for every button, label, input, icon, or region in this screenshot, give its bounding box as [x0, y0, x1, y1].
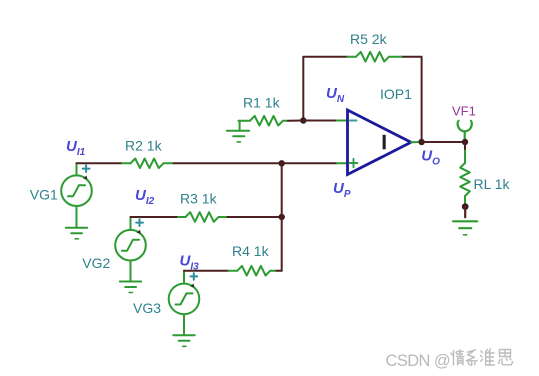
resistor R3	[178, 212, 228, 222]
svg-text:UN: UN	[326, 85, 345, 105]
node: non-inverting rail junction 2	[279, 214, 285, 220]
wire: R5 left vertical from node UN up and across to R5	[303, 57, 347, 121]
wire: VG1 to R2	[77, 162, 123, 164]
svg-text:CSDN @: CSDN @	[386, 352, 451, 370]
wire: R4 to vertical bus	[277, 270, 282, 272]
watermark glyph qing	[451, 350, 464, 365]
svg-text:VF1: VF1	[452, 104, 476, 119]
svg-text:UI3: UI3	[180, 252, 200, 272]
svg-text:UI2: UI2	[135, 187, 155, 207]
ground (R1)	[227, 121, 249, 142]
svg-text:R5 2k: R5 2k	[350, 31, 388, 47]
wire: output node short stub	[464, 142, 466, 151]
resistor R4	[228, 266, 276, 276]
wire: R2 to node P	[174, 162, 282, 164]
wire: VG3 to R4	[184, 270, 228, 272]
svg-text:VG2: VG2	[82, 255, 110, 271]
wire: stub to ground	[464, 207, 466, 218]
pin stub: op-amp output	[411, 141, 422, 143]
svg-text:UI1: UI1	[66, 138, 86, 158]
polarity arrow VG1	[83, 176, 87, 180]
minus mark (op-amp)	[350, 120, 357, 122]
plus mark VG1	[83, 165, 90, 172]
plus mark (op-amp)	[350, 159, 358, 167]
wire: vertical bus on non-inverting rail	[281, 163, 283, 270]
voltage source VG2	[115, 217, 146, 282]
voltage source VG3	[169, 271, 200, 336]
label I inside op-amp	[383, 135, 386, 150]
probe VF1	[458, 124, 472, 131]
polarity arrow VG3	[190, 284, 194, 288]
svg-text:R2 1k: R2 1k	[125, 138, 163, 154]
resistor R2	[122, 159, 174, 169]
watermark glyph huai	[481, 349, 495, 365]
op-amp IOP1	[348, 110, 412, 175]
node: output junction	[418, 139, 424, 145]
watermark glyph xi	[467, 350, 478, 366]
ground (VG2)	[120, 282, 141, 293]
wire: VG2 to R3	[131, 216, 179, 218]
resistor RL	[460, 151, 470, 206]
svg-text:R3 1k: R3 1k	[180, 191, 218, 207]
svg-text:RL 1k: RL 1k	[474, 176, 511, 192]
svg-text:IOP1: IOP1	[380, 86, 412, 102]
wire: node N to op-amp minus	[303, 120, 337, 122]
wire: R1 to node N	[288, 120, 303, 122]
wire: R3 to node P2	[228, 216, 282, 218]
watermark glyph si	[499, 350, 513, 365]
svg-text:VG1: VG1	[30, 187, 58, 203]
ground (RL)	[453, 221, 477, 235]
node: probe junction	[462, 139, 468, 145]
svg-text:UP: UP	[333, 180, 351, 200]
node: inverting input junction	[300, 117, 306, 123]
svg-text:UO: UO	[421, 148, 440, 168]
wire: output to load	[422, 141, 465, 143]
plus mark VG2	[136, 219, 143, 226]
pin stub: op-amp minus input	[337, 120, 348, 122]
svg-text:R4 1k: R4 1k	[232, 243, 270, 259]
ground (VG3)	[173, 335, 194, 346]
ground (VG1)	[66, 228, 87, 239]
wire: node P to op-amp plus	[282, 162, 337, 164]
voltage source VG1	[61, 163, 92, 227]
polarity arrow VG2	[137, 230, 141, 234]
svg-text:VG3: VG3	[133, 300, 161, 316]
node: RL bottom junction	[462, 203, 469, 210]
node: non-inverting rail junction 1	[279, 160, 285, 166]
resistor R5	[348, 52, 402, 62]
plus mark VG3	[191, 273, 198, 280]
pin stub: op-amp plus input	[337, 162, 348, 164]
resistor R1	[239, 116, 289, 126]
wire: R5 right to output node	[402, 57, 422, 142]
svg-text:R1 1k: R1 1k	[243, 95, 281, 111]
